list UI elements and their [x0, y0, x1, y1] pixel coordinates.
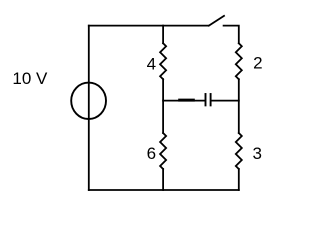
svg-text:3: 3 — [252, 144, 261, 163]
svg-text:4: 4 — [147, 55, 156, 74]
svg-text:10 V: 10 V — [12, 69, 48, 88]
svg-text:6: 6 — [147, 144, 156, 163]
svg-text:2: 2 — [253, 54, 262, 73]
